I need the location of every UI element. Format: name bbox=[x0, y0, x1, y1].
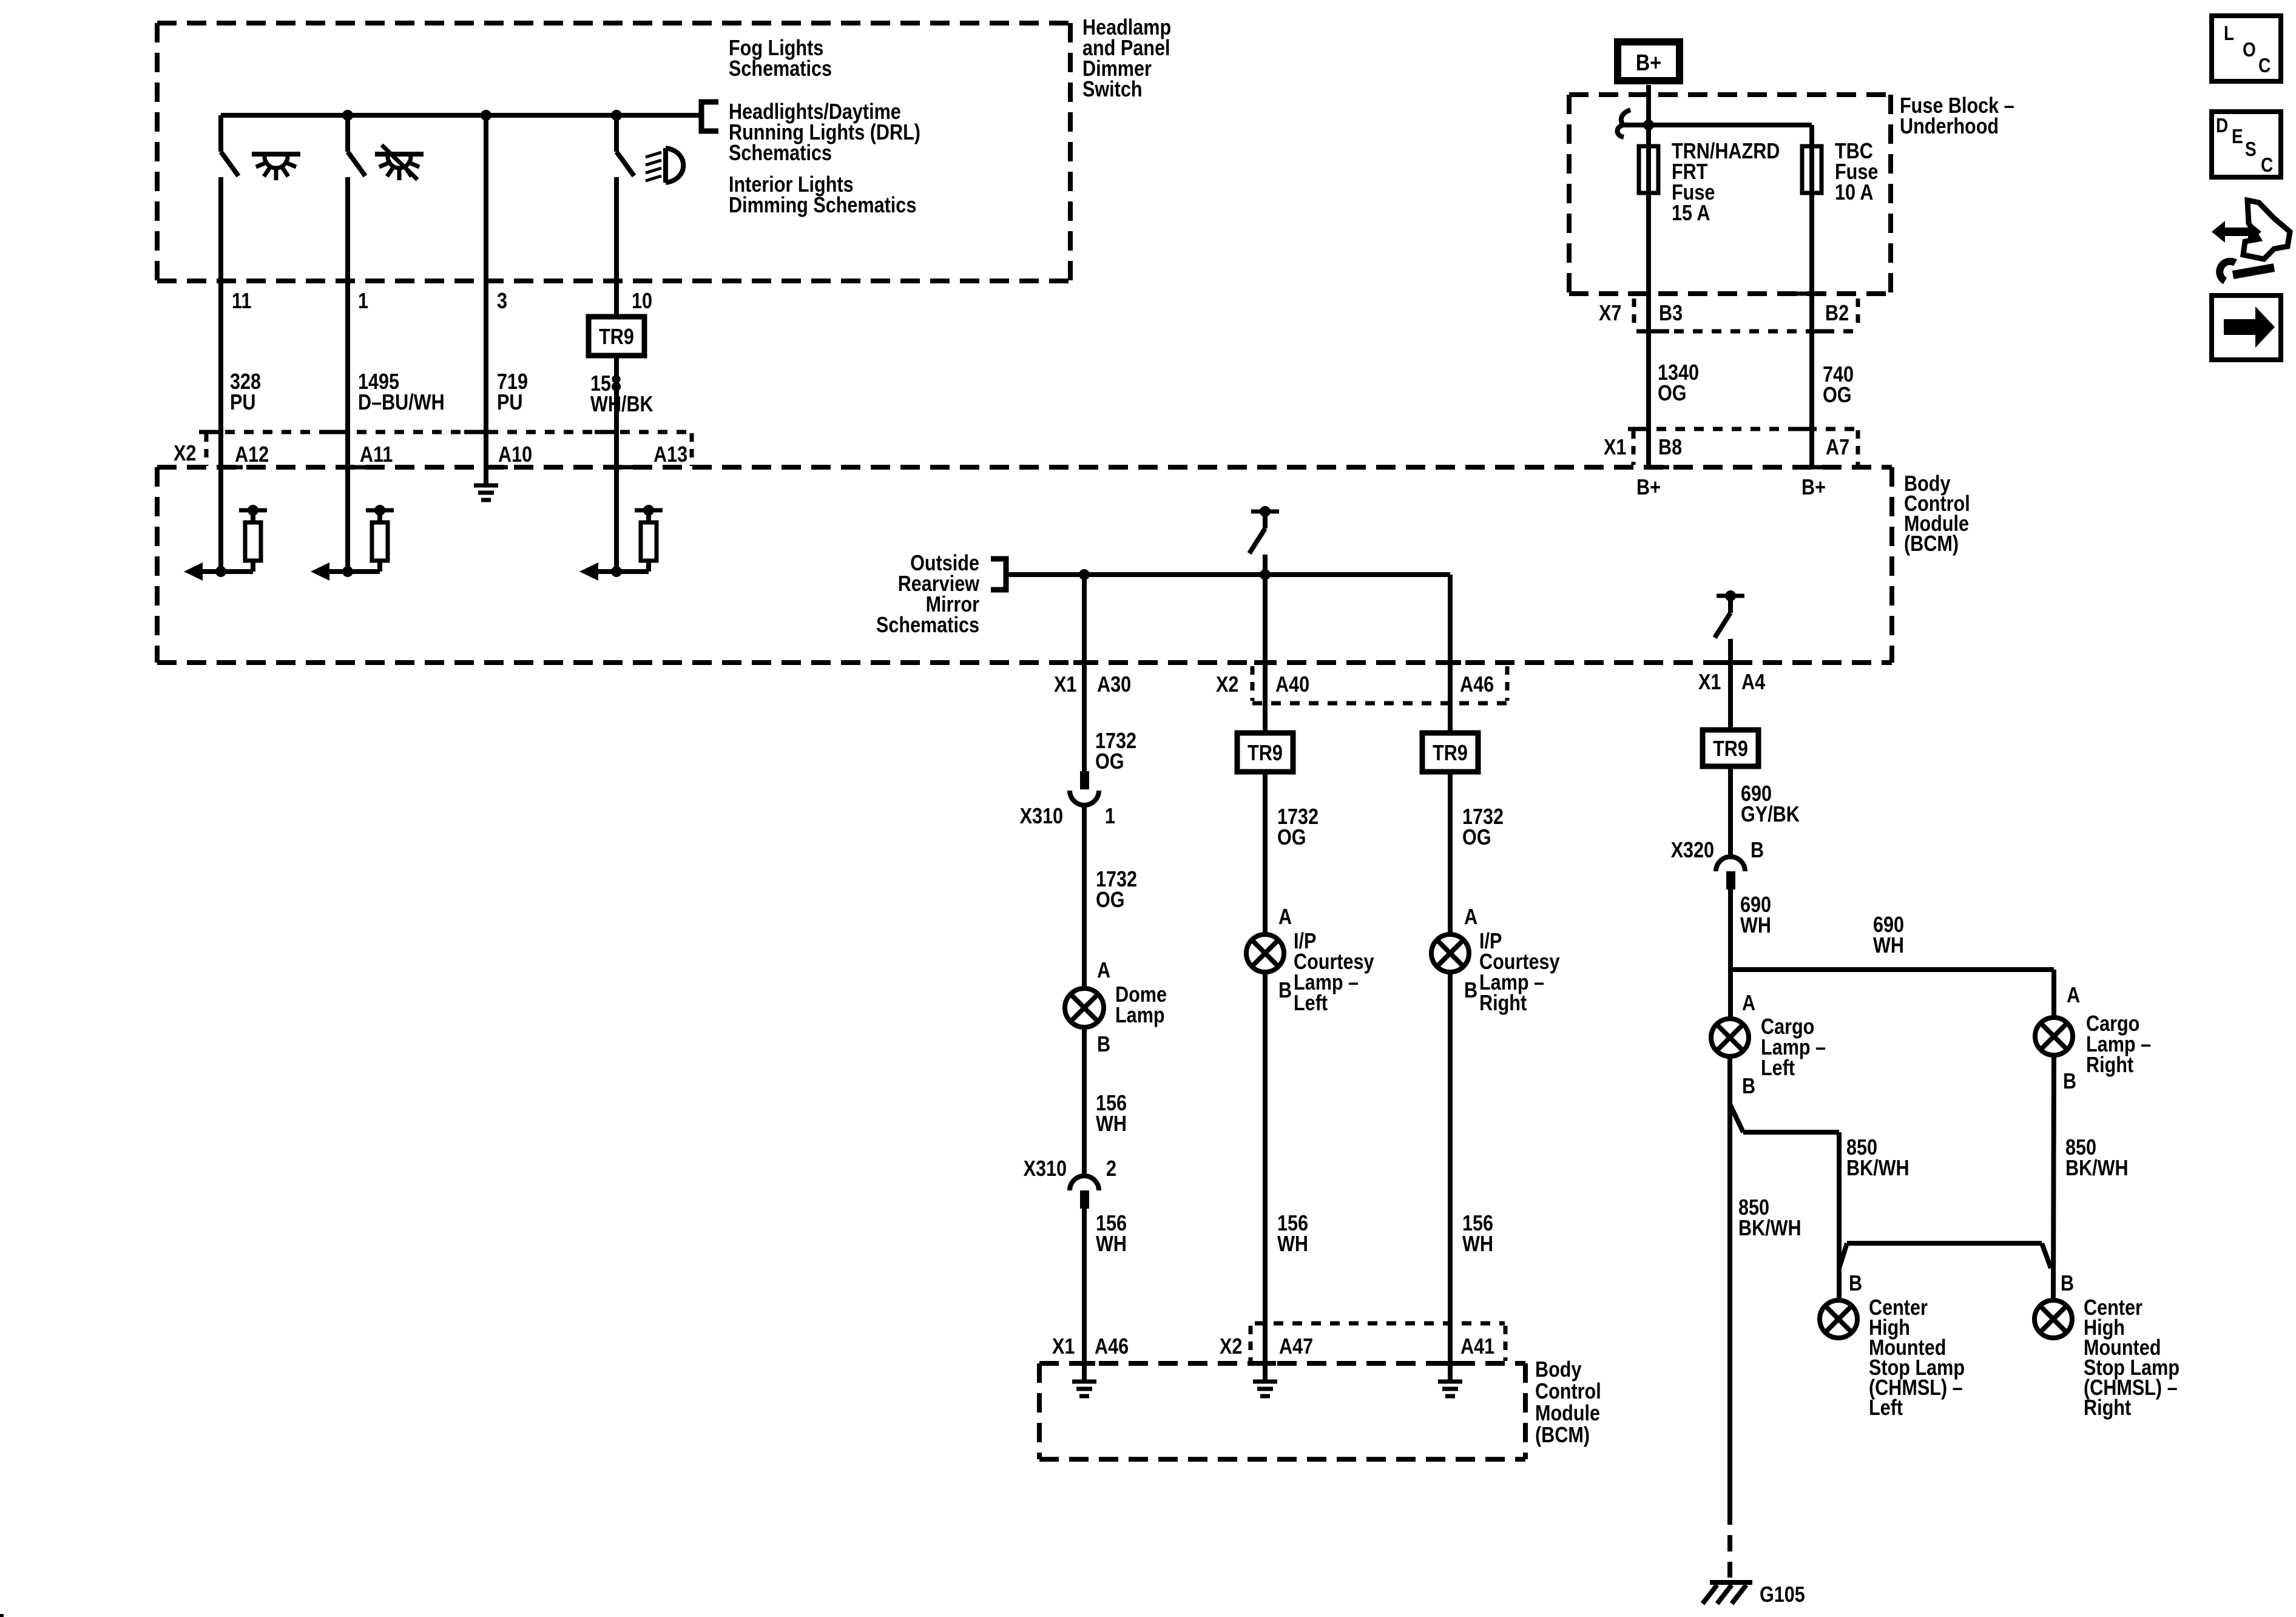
svg-text:Schematics: Schematics bbox=[729, 141, 832, 166]
wire 156 WH to BCM bbox=[1082, 1209, 1087, 1380]
svg-text:X2: X2 bbox=[174, 442, 196, 466]
connector X320 pin B bbox=[1716, 857, 1745, 871]
fuse block underhood box bbox=[1569, 92, 1891, 97]
wire 158 WH/BK lower bbox=[614, 356, 619, 572]
svg-text:Schematics: Schematics bbox=[729, 57, 832, 81]
wire 850 BK/WH tie bbox=[1847, 1241, 2042, 1246]
switch BCM output A4 bbox=[1717, 594, 1744, 598]
fuse TBC 10A bbox=[1802, 146, 1822, 193]
icon arrow box bbox=[2212, 295, 2281, 360]
ground internal A47 bbox=[1253, 1380, 1277, 1384]
svg-text:1: 1 bbox=[358, 289, 368, 314]
svg-text:A46: A46 bbox=[1095, 1335, 1129, 1359]
svg-text:A: A bbox=[1097, 959, 1110, 983]
svg-text:A: A bbox=[1278, 905, 1292, 930]
wire pin 10 upper bbox=[614, 177, 619, 318]
svg-text:Schematics: Schematics bbox=[876, 613, 979, 638]
connector X310 pin 2 bbox=[1070, 1176, 1099, 1190]
svg-text:G105: G105 bbox=[1760, 1583, 1805, 1607]
wire A40 TR9 to lamp bbox=[1263, 772, 1268, 934]
connector X310 pin 1 bbox=[1080, 771, 1089, 789]
svg-text:D: D bbox=[2216, 115, 2228, 137]
svg-text:C: C bbox=[2258, 55, 2271, 77]
ground internal A41 bbox=[1438, 1380, 1462, 1384]
node junction A30 bbox=[1079, 569, 1090, 580]
svg-text:2: 2 bbox=[1106, 1157, 1116, 1181]
svg-text:OG: OG bbox=[1462, 826, 1491, 850]
body control module box bbox=[157, 465, 1892, 470]
icon diagnosis arrows and wrench bbox=[2212, 221, 2261, 243]
svg-text:Module: Module bbox=[1535, 1402, 1600, 1426]
svg-text:X1: X1 bbox=[1698, 670, 1721, 695]
svg-text:C: C bbox=[2261, 154, 2273, 177]
svg-text:Left: Left bbox=[1761, 1056, 1795, 1081]
svg-text:A41: A41 bbox=[1460, 1335, 1494, 1359]
wire 690 WH branch to right bbox=[1730, 967, 2054, 972]
body control module box lower bbox=[1039, 1361, 1525, 1366]
svg-text:X310: X310 bbox=[1020, 805, 1063, 829]
svg-text:B3: B3 bbox=[1659, 302, 1683, 326]
svg-text:OG: OG bbox=[1277, 826, 1306, 850]
svg-text:TR9: TR9 bbox=[1433, 741, 1468, 766]
svg-text:X320: X320 bbox=[1671, 839, 1714, 863]
svg-text:15 A: 15 A bbox=[1672, 201, 1710, 226]
driver resistor unit A11 bbox=[377, 562, 382, 572]
svg-text:A11: A11 bbox=[360, 443, 393, 467]
fog lamp icon bbox=[663, 148, 668, 183]
wire to TBC fuse bbox=[1649, 123, 1812, 127]
svg-text:GY/BK: GY/BK bbox=[1741, 803, 1800, 827]
wire bus of dimmer switch bbox=[221, 113, 701, 118]
svg-text:B+: B+ bbox=[1636, 476, 1661, 500]
svg-text:A: A bbox=[2067, 984, 2080, 1008]
svg-text:WH: WH bbox=[1873, 934, 1904, 958]
svg-text:A12: A12 bbox=[235, 443, 269, 467]
svg-text:A: A bbox=[1464, 905, 1477, 930]
switch S1 panel dimmer bbox=[218, 115, 223, 152]
svg-text:A46: A46 bbox=[1460, 673, 1494, 697]
svg-text:O: O bbox=[2243, 39, 2256, 61]
svg-text:X2: X2 bbox=[1220, 1335, 1242, 1359]
svg-text:PU: PU bbox=[230, 391, 255, 415]
svg-text:A47: A47 bbox=[1279, 1335, 1313, 1359]
fusible link curl bbox=[1621, 110, 1630, 125]
connector row X2 left bbox=[206, 430, 692, 434]
svg-text:X2: X2 bbox=[1216, 673, 1238, 697]
svg-text:OG: OG bbox=[1095, 750, 1124, 774]
svg-text:WH: WH bbox=[1096, 1232, 1127, 1257]
wire A46 down bbox=[1448, 575, 1453, 733]
svg-text:B+: B+ bbox=[1636, 50, 1661, 76]
wire 156 WH courtesy left bbox=[1263, 972, 1268, 1380]
svg-text:B: B bbox=[1751, 839, 1764, 863]
connector row X2 lower bbox=[1255, 1322, 1505, 1326]
node junction sw4 bbox=[611, 110, 622, 121]
bracket to mirror schematics bbox=[991, 559, 1006, 590]
power feed B+ box bbox=[1618, 42, 1680, 81]
wire pin 3 bbox=[484, 115, 488, 484]
svg-text:A13: A13 bbox=[653, 443, 687, 467]
ground G105 bbox=[1710, 1580, 1752, 1585]
svg-text:Body: Body bbox=[1535, 1358, 1582, 1382]
svg-text:X310: X310 bbox=[1024, 1157, 1067, 1181]
svg-text:TR9: TR9 bbox=[1713, 737, 1748, 761]
switch BCM output A40 bbox=[1251, 510, 1279, 514]
svg-text:Right: Right bbox=[2086, 1053, 2133, 1078]
wire 690 WH down bbox=[1728, 890, 1733, 1019]
svg-text:TR9: TR9 bbox=[1248, 741, 1283, 766]
lamp cargo lamp left bbox=[1711, 1019, 1749, 1056]
svg-text:OG: OG bbox=[1658, 382, 1687, 406]
headlamp and panel dimmer switch box bbox=[157, 21, 1070, 25]
lamp cargo lamp right bbox=[2035, 1018, 2073, 1055]
svg-text:B: B bbox=[2061, 1272, 2074, 1296]
lamp icon interior lamps bbox=[252, 152, 300, 157]
connector ticks BCM lower bbox=[1073, 1361, 1095, 1366]
lamp I/P courtesy lamp left bbox=[1246, 934, 1284, 972]
svg-text:WH: WH bbox=[1462, 1232, 1493, 1257]
svg-text:X1: X1 bbox=[1604, 436, 1626, 460]
node junction sw3 bbox=[481, 110, 491, 121]
wire A30 down bbox=[1082, 575, 1087, 771]
driver resistor unit A13 bbox=[646, 562, 651, 572]
svg-text:Right: Right bbox=[2084, 1396, 2131, 1420]
svg-text:X7: X7 bbox=[1599, 302, 1621, 326]
svg-text:A40: A40 bbox=[1275, 673, 1309, 697]
svg-text:Underhood: Underhood bbox=[1900, 115, 1999, 139]
svg-text:10: 10 bbox=[632, 289, 652, 314]
svg-text:E: E bbox=[2232, 126, 2243, 148]
wire 156 WH dome bbox=[1082, 1027, 1087, 1175]
wire dashed to G105 bbox=[1727, 1508, 1732, 1578]
svg-text:X1: X1 bbox=[1052, 1335, 1075, 1359]
svg-text:WH: WH bbox=[1740, 914, 1771, 938]
lamp CHMSL right bbox=[2034, 1300, 2072, 1338]
svg-text:S: S bbox=[2245, 138, 2257, 161]
wire A46 TR9 to lamp bbox=[1448, 772, 1453, 934]
svg-text:A10: A10 bbox=[498, 443, 532, 467]
svg-text:BK/WH: BK/WH bbox=[1738, 1217, 1801, 1241]
wire A4 TR9 to X320 bbox=[1728, 766, 1733, 857]
lamp icon interior lamps off (slashed) bbox=[375, 152, 424, 157]
wire 850 BK/WH jog to CHMSL left bbox=[1730, 1104, 1743, 1132]
icon LOC box bbox=[2212, 16, 2281, 81]
wire A30 to X310 bbox=[1082, 575, 1087, 771]
icon DESC box bbox=[2212, 112, 2281, 177]
transformer box TR9 A40 bbox=[1237, 733, 1293, 772]
switch S2 dome override bbox=[345, 115, 350, 152]
svg-text:Switch: Switch bbox=[1082, 78, 1143, 102]
node junction fuse feed bbox=[1643, 120, 1654, 130]
connector row X2 mid bbox=[1252, 701, 1507, 706]
svg-text:L: L bbox=[2224, 22, 2234, 45]
svg-text:(BCM): (BCM) bbox=[1535, 1423, 1590, 1448]
svg-text:B2: B2 bbox=[1825, 302, 1849, 326]
switch S4 fog lamp bbox=[614, 115, 619, 152]
connector row X1 right bbox=[1638, 427, 1858, 431]
wire 850 BK/WH main down bbox=[1727, 1056, 1732, 1508]
node junction A40 bbox=[1260, 569, 1271, 580]
svg-text:10 A: 10 A bbox=[1835, 181, 1873, 205]
fuse TRN/HAZRD FRT 15A bbox=[1639, 146, 1658, 193]
connector ticks BCM bottom bbox=[1073, 660, 1095, 665]
wire A40 down bbox=[1263, 575, 1268, 733]
wire from B+ bbox=[1646, 85, 1651, 467]
ground internal A10 bbox=[474, 484, 498, 488]
svg-text:TR9: TR9 bbox=[599, 325, 634, 349]
svg-text:Control: Control bbox=[1535, 1380, 1601, 1404]
svg-text:B: B bbox=[1097, 1033, 1110, 1057]
svg-text:Right: Right bbox=[1479, 991, 1527, 1016]
svg-text:WH: WH bbox=[1277, 1232, 1308, 1257]
svg-text:B: B bbox=[2063, 1070, 2076, 1094]
wire 1732 OG to dome lamp bbox=[1082, 806, 1087, 988]
svg-text:A7: A7 bbox=[1826, 436, 1849, 460]
bracket to DRL schematics bbox=[701, 102, 718, 131]
svg-text:B: B bbox=[1278, 979, 1292, 1003]
svg-text:PU: PU bbox=[497, 391, 522, 415]
page mark bbox=[0, 1614, 4, 1617]
svg-text:BK/WH: BK/WH bbox=[1846, 1156, 1909, 1181]
lamp CHMSL left bbox=[1820, 1300, 1857, 1338]
lamp I/P courtesy lamp right bbox=[1431, 934, 1469, 972]
transformer box TR9 A46 bbox=[1422, 733, 1478, 772]
wire pin 1 bbox=[345, 177, 350, 572]
svg-text:B: B bbox=[1742, 1075, 1755, 1099]
lamp dome lamp bbox=[1065, 988, 1104, 1027]
svg-text:D–BU/WH: D–BU/WH bbox=[358, 391, 445, 415]
svg-text:WH: WH bbox=[1096, 1112, 1127, 1136]
svg-text:Dimming Schematics: Dimming Schematics bbox=[729, 194, 916, 218]
wire interior lamp bus bbox=[1006, 572, 1450, 577]
connector row X7 bbox=[1636, 329, 1858, 334]
svg-text:B+: B+ bbox=[1801, 476, 1826, 500]
wire 850 BK/WH cargo right down bbox=[2053, 1056, 2054, 1300]
transformer box TR9 A4 bbox=[1703, 730, 1758, 766]
svg-text:A30: A30 bbox=[1097, 673, 1131, 697]
node junction sw2 bbox=[342, 110, 353, 121]
svg-text:X1: X1 bbox=[1054, 673, 1076, 697]
svg-text:BK/WH: BK/WH bbox=[2065, 1156, 2129, 1181]
svg-text:(BCM): (BCM) bbox=[1904, 532, 1959, 556]
svg-text:A4: A4 bbox=[1741, 670, 1765, 695]
wire 156 WH courtesy right bbox=[1448, 972, 1453, 1380]
svg-text:B8: B8 bbox=[1658, 436, 1682, 460]
ground internal A46 bbox=[1072, 1380, 1096, 1384]
svg-text:OG: OG bbox=[1096, 888, 1125, 913]
svg-text:B: B bbox=[1849, 1272, 1862, 1296]
svg-text:B: B bbox=[1464, 979, 1477, 1003]
wire A4 to border bbox=[1728, 639, 1733, 729]
svg-text:A: A bbox=[1742, 991, 1755, 1016]
svg-text:1: 1 bbox=[1105, 805, 1115, 829]
driver resistor unit A12 bbox=[251, 562, 255, 572]
svg-text:3: 3 bbox=[497, 289, 507, 314]
transformer box TR9 pin 10 bbox=[589, 317, 644, 356]
svg-text:Left: Left bbox=[1869, 1396, 1903, 1420]
svg-text:Lamp: Lamp bbox=[1115, 1004, 1165, 1028]
svg-text:OG: OG bbox=[1823, 383, 1852, 408]
svg-text:WH/BK: WH/BK bbox=[590, 393, 653, 417]
svg-text:Left: Left bbox=[1294, 991, 1328, 1016]
wire pin 11 bbox=[218, 177, 223, 572]
svg-text:11: 11 bbox=[232, 289, 251, 314]
